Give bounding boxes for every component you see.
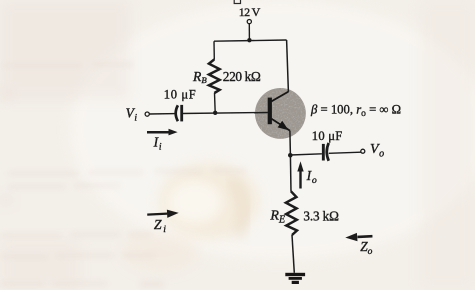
svg-text:10 μF: 10 μF	[312, 129, 343, 143]
transistor Q1 emitter	[272, 119, 290, 131]
wire output left	[290, 154, 322, 155]
background smudge artifact	[122, 163, 259, 272]
node emitter junction	[288, 153, 293, 158]
transistor Q1 shaded circle	[254, 87, 307, 140]
arrow Zi	[147, 210, 179, 218]
resistor RE	[286, 191, 297, 235]
arrow Io	[297, 161, 303, 188]
arrow Zo	[345, 233, 372, 241]
wire RB top	[213, 41, 215, 60]
transistor Q1 collector	[272, 92, 289, 102]
svg-text:3.3 kΩ: 3.3 kΩ	[303, 208, 339, 223]
wire base	[149, 113, 176, 115]
arrow Ii	[147, 129, 178, 136]
svg-text:220 kΩ: 220 kΩ	[223, 69, 261, 84]
supply terminal	[247, 20, 251, 24]
wire output right	[329, 152, 361, 153]
transistor Q1 emitter arrowhead	[278, 121, 289, 131]
wire emitter vertical	[289, 131, 292, 156]
node supply junction	[247, 38, 251, 42]
transistor Q1 base bar	[268, 98, 272, 125]
ghost bleed-through text lines	[0, 62, 247, 288]
wire emitter to RE	[289, 155, 292, 191]
resistor RB	[209, 60, 220, 94]
wire supply drop	[248, 24, 250, 40]
wire top rail	[214, 40, 287, 41]
svg-text:12 V: 12 V	[239, 5, 261, 19]
wire RB bottom	[214, 93, 217, 113]
wire collector vertical	[287, 40, 289, 92]
svg-text:10 μF: 10 μF	[164, 88, 196, 102]
capacitor C1 10uF (input)	[176, 105, 178, 121]
input terminal Vi	[145, 112, 149, 116]
output terminal Vo	[361, 149, 365, 153]
faint pink edge tints	[0, 90, 14, 204]
node base junction	[213, 111, 217, 115]
wire base inside circle	[254, 112, 268, 114]
capacitor C2 10uF (output)	[322, 144, 325, 161]
ground	[285, 273, 305, 284]
wire RE to ground	[292, 235, 294, 273]
supply square marker (page crop artifact at top)	[234, 0, 240, 4]
